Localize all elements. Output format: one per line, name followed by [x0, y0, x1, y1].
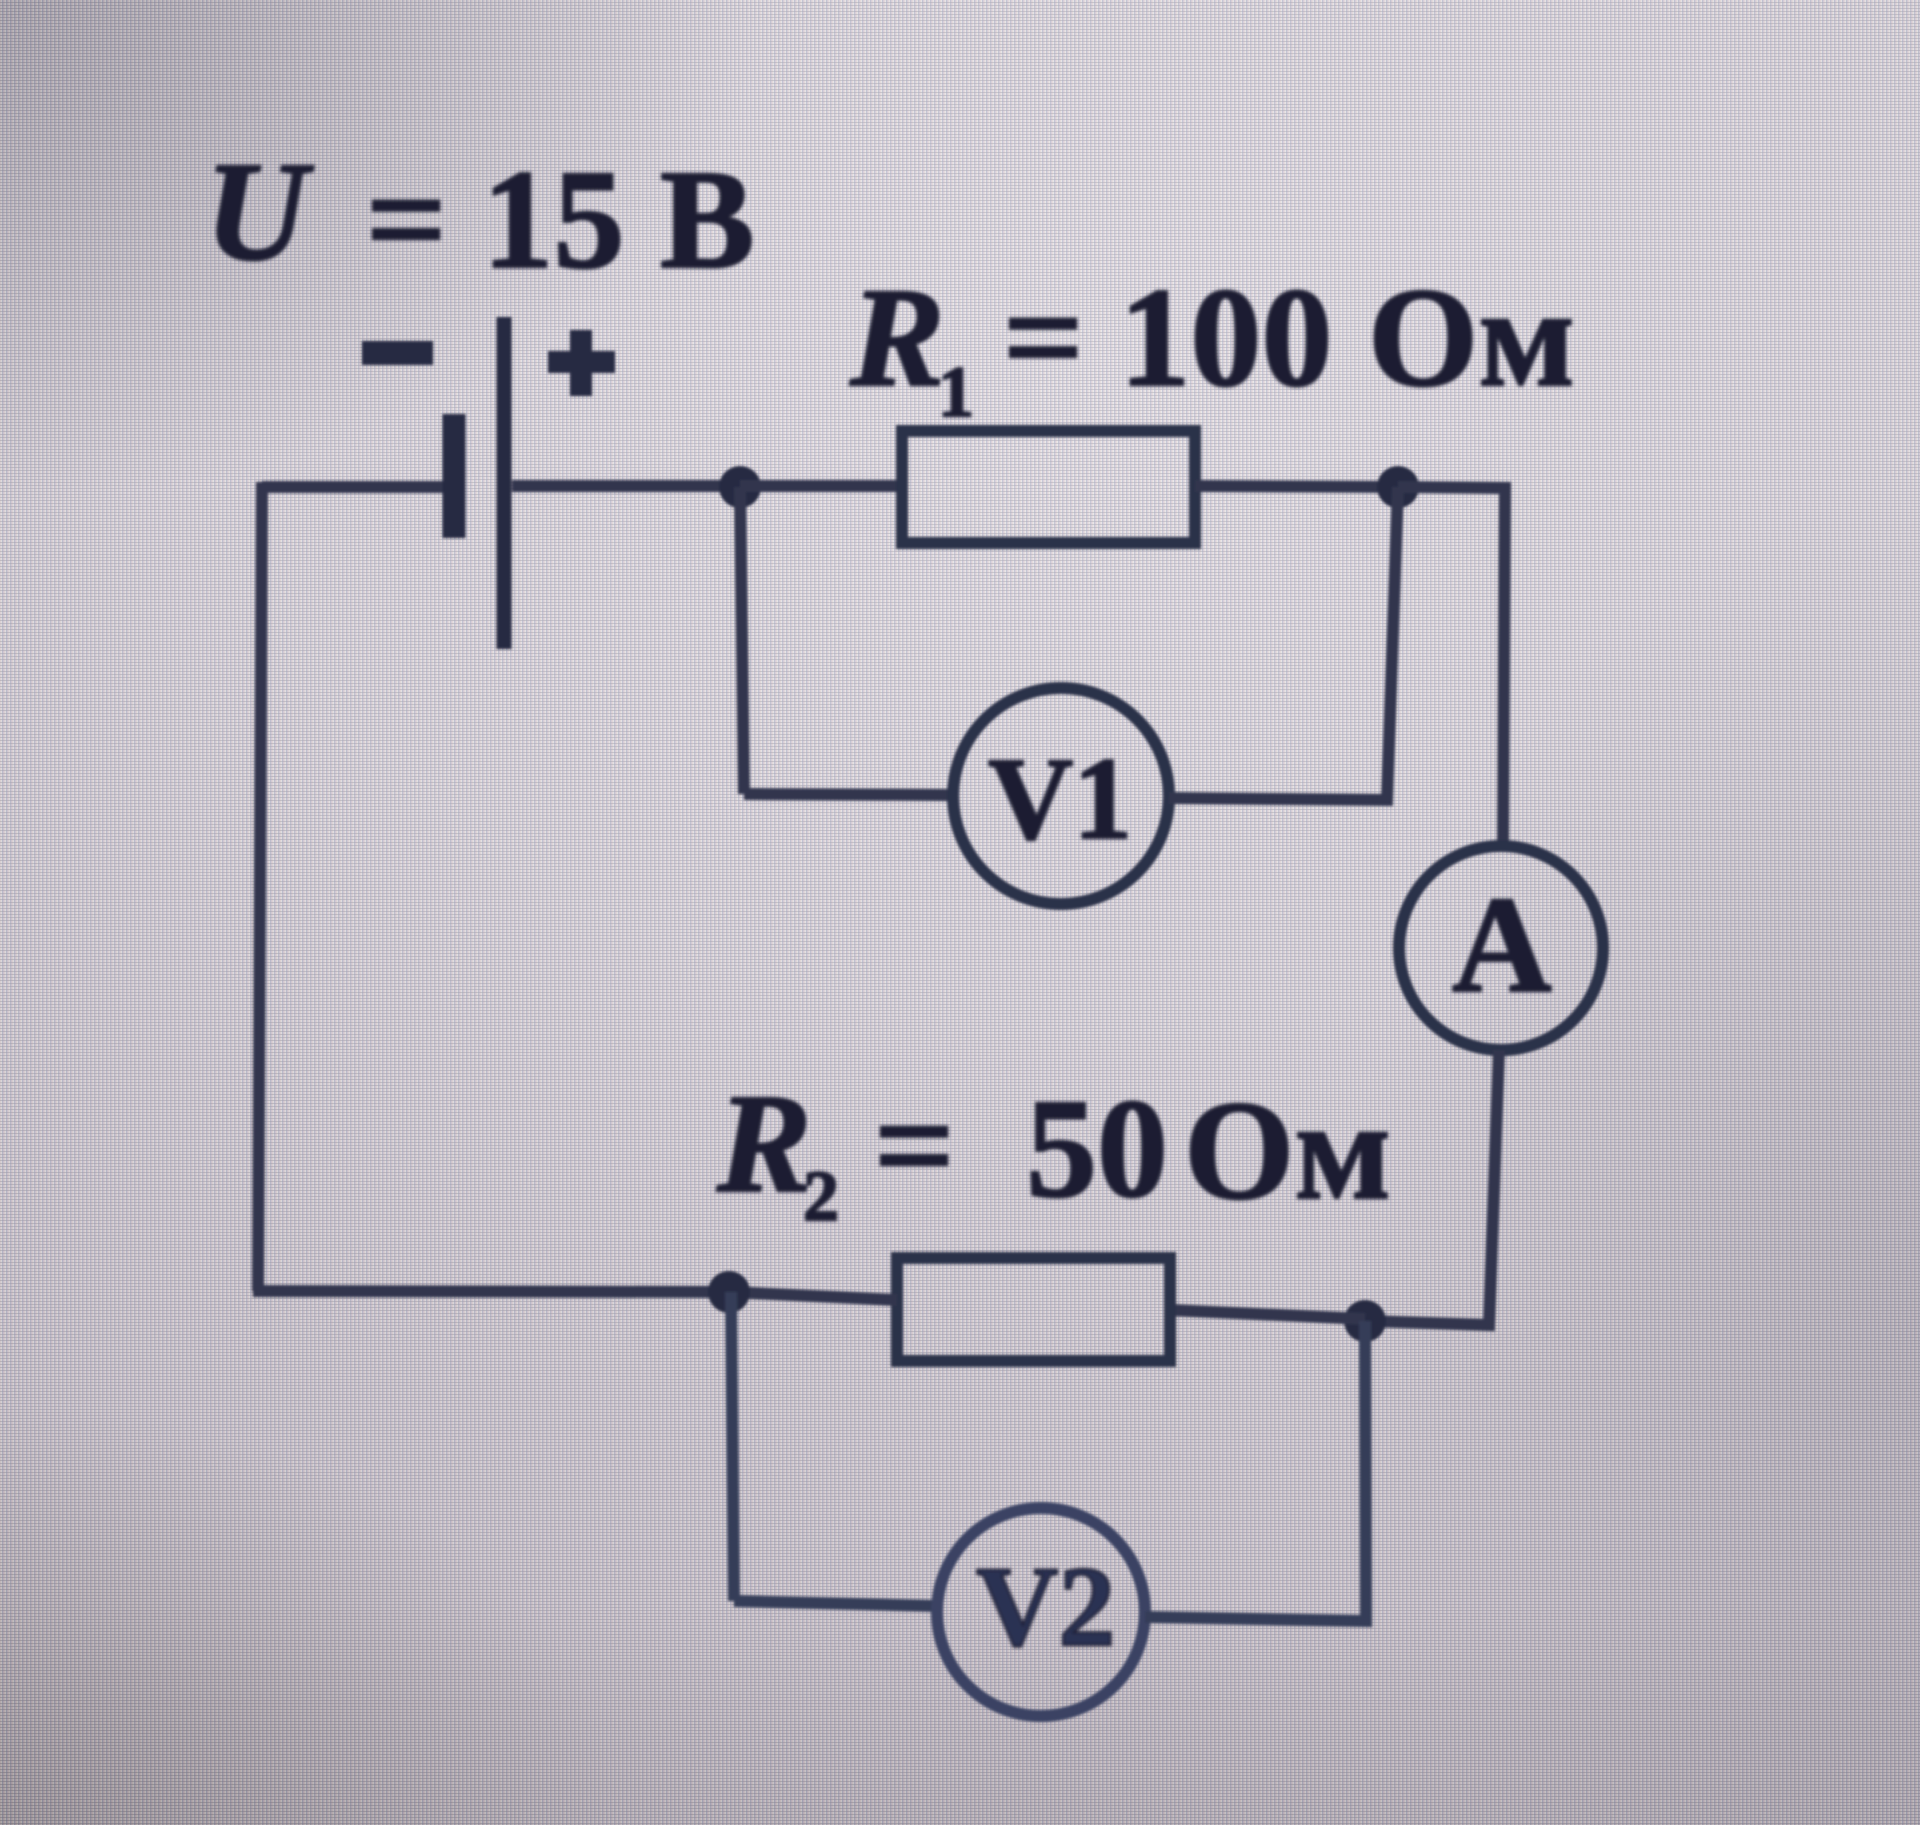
wire: to voltmeter V2 left — [734, 1601, 938, 1606]
ammeter A circle — [1399, 846, 1603, 1050]
svg-text:Ом: Ом — [1184, 1071, 1391, 1229]
svg-text:= 100 Ом: = 100 Ом — [1003, 258, 1575, 416]
svg-text:A: A — [1452, 868, 1552, 1021]
svg-text:=: = — [874, 1066, 955, 1224]
wire: node A1 to R1 left — [740, 480, 900, 492]
svg-text:V1: V1 — [988, 733, 1132, 864]
wire: node B2 to R2 right — [1170, 1310, 1365, 1319]
battery plus sign label — [548, 330, 615, 396]
wire: battery plus to node A1 — [512, 480, 738, 492]
wire: ammeter bottom down then left to node B2 — [1366, 1050, 1499, 1325]
wire: top from left corner to battery minus — [262, 481, 443, 493]
node B2 junction dot — [1344, 1300, 1386, 1342]
svg-text:U: U — [205, 132, 314, 290]
wire: V2 right then up to node B2 — [1145, 1321, 1366, 1621]
battery plus plate (long thin) — [497, 317, 512, 649]
svg-text:1: 1 — [938, 352, 974, 432]
wire: node A2 to top right corner and down to ammeter — [1398, 487, 1505, 846]
battery minus plate (short thick) — [443, 414, 466, 538]
wire: R2 left to node B1 — [729, 1292, 897, 1300]
node A1 junction dot — [719, 466, 761, 508]
svg-text:R: R — [716, 1064, 812, 1222]
wire: bottom left horizontal to node — [253, 1291, 729, 1292]
resistor R1 body — [902, 431, 1195, 543]
wire: V1 drop from node A1 — [740, 487, 744, 794]
wire: R1 right to node A2 — [1195, 486, 1398, 487]
voltmeter V1 circle — [953, 688, 1169, 904]
svg-text:50: 50 — [1026, 1069, 1168, 1227]
wire: left vertical side — [258, 482, 262, 1291]
voltmeter V2 circle — [937, 1508, 1145, 1716]
wire: to voltmeter V1 left — [744, 794, 953, 795]
wire: V1 right then up to node A2 — [1169, 487, 1398, 800]
svg-text:V2: V2 — [976, 1543, 1115, 1670]
node B1 junction dot — [708, 1271, 750, 1313]
resistor R2 body — [897, 1258, 1170, 1361]
battery minus sign label — [362, 341, 433, 365]
svg-text:R: R — [849, 258, 945, 416]
svg-text:2: 2 — [803, 1156, 839, 1236]
node A2 junction dot — [1377, 466, 1419, 508]
svg-text:= 15 В: = 15 В — [366, 140, 755, 298]
wire: V2 drop from node B1 — [731, 1292, 734, 1601]
